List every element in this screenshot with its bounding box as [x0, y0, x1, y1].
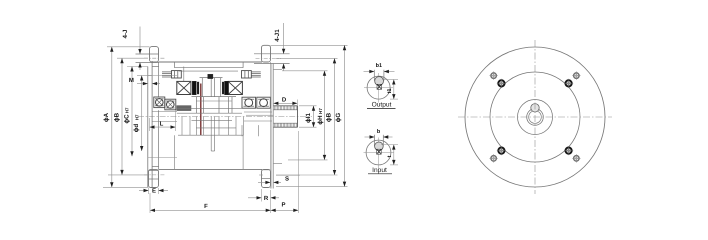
- dark bolt hole at 135 deg: [498, 80, 504, 86]
- lower-half housing interior lines: [174, 135, 176, 169]
- dimension t: [381, 144, 398, 146]
- svg-text:Input: Input: [372, 167, 387, 174]
- housing outline: [159, 61, 263, 63]
- dimension M (flange plate thickness): [137, 83, 148, 85]
- left flange plate: [147, 67, 149, 188]
- top recessed panel: [174, 62, 176, 68]
- dimension P: [271, 209, 299, 211]
- svg-text:F: F: [204, 203, 208, 210]
- output hub lines: [244, 111, 272, 113]
- input keyway slot: [374, 135, 376, 146]
- dark bolt hole at 315 deg: [565, 147, 571, 153]
- dimension phid H7: [141, 76, 143, 152]
- hub circle: [518, 100, 553, 135]
- output keyway circle: [375, 77, 384, 86]
- dimension phiG: [271, 44, 348, 46]
- svg-text:H7: H7: [318, 108, 323, 114]
- ext lines left: [107, 46, 150, 48]
- dimension phiH H7: [282, 70, 328, 72]
- svg-text:D: D: [282, 96, 287, 103]
- crosshair centerlines: [458, 116, 612, 118]
- svg-text:L: L: [160, 120, 164, 127]
- dark hub band under left coil: [177, 106, 191, 111]
- output housing shoulder lines: [273, 68, 282, 70]
- top-right mounting lug: [262, 45, 271, 62]
- bottom-left mounting lug: [149, 169, 159, 187]
- dimension phiA: [111, 47, 113, 188]
- lug hole centerline: [144, 57, 165, 59]
- dimension F: [150, 209, 271, 211]
- dark red shaft line: [200, 84, 202, 136]
- top-left mounting lug: [150, 47, 159, 62]
- svg-text:S: S: [285, 176, 289, 183]
- dimension 4-J: [139, 27, 141, 55]
- svg-text:4-J1: 4-J1: [274, 29, 281, 42]
- output face plates: [269, 62, 271, 189]
- output bearing seat lower half: [241, 125, 243, 136]
- svg-text:ϕC: ϕC: [123, 114, 130, 124]
- svg-text:ϕd: ϕd: [133, 124, 140, 133]
- dimension L: [150, 126, 176, 128]
- gray bolt hole at 45 deg: [574, 73, 579, 78]
- bore top line: [148, 75, 177, 77]
- svg-text:ϕI1: ϕI1: [305, 113, 312, 123]
- bottom-right mounting lug: [262, 169, 271, 187]
- shaft edge extension lines: [299, 105, 317, 107]
- svg-text:R: R: [264, 195, 269, 202]
- input bearings (ball bearings upper left): [154, 97, 165, 108]
- dimension phiI1 (shaft dia): [313, 106, 315, 127]
- dark bolt hole at 45 deg: [565, 80, 571, 86]
- output keyway slot: [373, 70, 375, 81]
- svg-text:b1: b1: [376, 63, 382, 69]
- right coil block (square with X): [228, 81, 242, 94]
- svg-text:ϕH: ϕH: [317, 115, 324, 125]
- output circle: [367, 76, 390, 99]
- input hub bore lines: [152, 111, 177, 113]
- svg-text:P: P: [281, 201, 285, 208]
- svg-text:H7: H7: [125, 107, 130, 113]
- svg-text:Output: Output: [372, 102, 392, 109]
- lug hole bottom edge ext: [254, 63, 290, 65]
- hole centerline: [256, 58, 282, 60]
- bore bottom line: [148, 157, 177, 159]
- left coil block (square with X): [177, 81, 191, 94]
- svg-text:ϕB: ϕB: [325, 112, 332, 122]
- dark bolt hole at 225 deg: [498, 147, 504, 153]
- keyway circle: [531, 104, 539, 112]
- input circle: [366, 140, 391, 165]
- input keyway circle: [375, 142, 384, 151]
- spigot edges: [152, 66, 159, 68]
- v centerline: [378, 73, 380, 103]
- middle circle: [490, 72, 580, 162]
- dimension phiB right: [276, 57, 338, 59]
- svg-text:ϕB: ϕB: [113, 112, 120, 122]
- svg-text:ϕA: ϕA: [103, 112, 110, 122]
- bore inner: [529, 111, 542, 124]
- dimension t1: [382, 79, 398, 81]
- central disc stack: [200, 77, 223, 79]
- outer circle: [465, 47, 605, 187]
- svg-text:4-J: 4-J: [122, 29, 129, 39]
- dimension phiB: [121, 58, 123, 175]
- svg-text:H7: H7: [134, 114, 139, 120]
- dimension R: [248, 197, 262, 199]
- svg-text:t1: t1: [387, 89, 393, 94]
- dimension b1: [364, 71, 375, 73]
- screw seat line: [183, 67, 185, 82]
- lug hole top edge ext: [254, 53, 290, 55]
- right clamp screw: [242, 71, 252, 78]
- dimension D (shaft length): [273, 102, 297, 104]
- gray bolt hole at 315 deg: [574, 156, 579, 161]
- dimension E (bottom lug): [139, 190, 149, 192]
- lug hole top edge: [136, 53, 159, 55]
- svg-text:M: M: [129, 77, 134, 84]
- dimension 4-J1: [283, 23, 285, 54]
- svg-text:ϕG: ϕG: [335, 113, 342, 123]
- svg-text:t: t: [387, 155, 393, 157]
- dimension b: [365, 136, 375, 138]
- gray bolt hole at 225 deg: [491, 156, 496, 161]
- dimension phiC H7: [131, 67, 133, 157]
- gray bolt hole at 135 deg: [491, 73, 496, 78]
- left clamp screw: [162, 71, 172, 73]
- black clamp bars left: [192, 81, 196, 95]
- lug hole bottom edge: [136, 62, 159, 64]
- svg-text:E: E: [152, 188, 156, 195]
- black clamp bars right: [222, 82, 224, 94]
- h centerline: [364, 87, 393, 89]
- output shaft with knurl: [273, 105, 297, 107]
- output key cross: [377, 84, 382, 89]
- output bearings (ball bearings upper right): [242, 97, 256, 108]
- dimension S: [258, 181, 270, 183]
- input key cross: [377, 149, 382, 154]
- bore outer: [527, 109, 544, 126]
- main axis centerline: [138, 116, 312, 118]
